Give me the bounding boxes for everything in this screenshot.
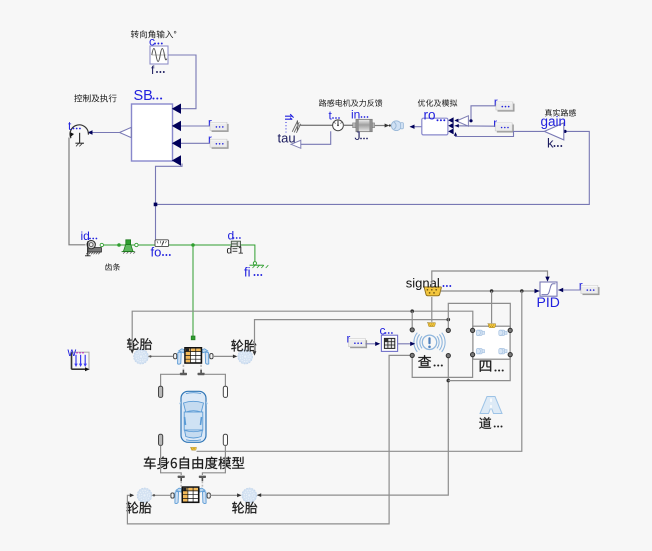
label roadfeel-motor-force-feedback	[319, 99, 382, 106]
SB input triangle 3	[172, 138, 181, 148]
torque source tau (fixed mount)	[285, 114, 301, 133]
front axle lower frame stubs (dashed)	[182, 365, 184, 370]
label tire RR	[232, 502, 257, 514]
wire ro to motor	[411, 126, 422, 128]
label dao name	[479, 417, 491, 429]
front axle T connector left	[180, 370, 187, 375]
block rack mass (sliding mass)	[122, 240, 136, 254]
wire cha TR to si RT (over the top)	[448, 303, 510, 328]
r parameter block r1	[208, 117, 229, 132]
wire cha TL stub	[411, 311, 413, 327]
connector TR	[446, 328, 450, 332]
SB input triangle 2	[172, 121, 181, 131]
wire car signal up (long)	[197, 291, 522, 451]
junction node green 2	[191, 243, 195, 247]
label control-and-actuation	[74, 94, 116, 102]
connector green circle before fo	[135, 243, 138, 246]
block SB (controller)	[132, 104, 173, 161]
small yellow connector on cha top	[427, 323, 435, 327]
torque source t1 (steering torque)	[70, 125, 88, 147]
si connector LB	[471, 353, 475, 357]
svg-text:c: c	[149, 35, 155, 49]
wire sine to SB input1	[168, 55, 196, 109]
block cha (brake lookup) connector TL	[410, 328, 414, 332]
block fo force sensor	[155, 240, 169, 247]
block id1 rack-pinion gear	[85, 240, 101, 255]
svg-text:signal: signal	[406, 276, 440, 291]
svg-text:PID: PID	[537, 294, 560, 310]
wire bracket rear-right pill to axle	[202, 446, 225, 475]
car bottom signal connector (yellow)	[190, 447, 196, 450]
road block icon (dao)	[480, 397, 502, 414]
junction node at gain input	[563, 130, 566, 133]
label rack	[105, 263, 120, 270]
wire front-left tire to axle	[148, 355, 173, 357]
r parameter block r4	[493, 118, 514, 133]
label steering-angle-input	[131, 30, 177, 38]
wire cha BR to rear-right tire	[258, 358, 449, 495]
label optimize-simulate	[418, 99, 458, 106]
front axle T connector right	[198, 370, 205, 375]
wire front-left tire brake line (A)	[132, 311, 473, 352]
wire bracket front-right to car pill	[204, 374, 225, 386]
wire grey torque source down to rack gear	[69, 138, 86, 245]
SB output triangle (left, hollow)	[120, 127, 132, 137]
signal d-sub connector	[423, 287, 441, 296]
block damper d=1	[231, 241, 240, 246]
label tire RL	[126, 502, 151, 514]
label true-roadfeel	[545, 109, 576, 116]
wire c table to brake icon	[398, 343, 414, 345]
si connector RT	[508, 328, 512, 332]
input connector tau (hollow triangle)	[291, 140, 301, 148]
block ro (optimizer)	[422, 118, 448, 135]
r parameter block r6	[347, 334, 368, 349]
svg-text:w: w	[67, 345, 77, 359]
wire green rack main line	[101, 244, 231, 246]
ro input triangle 3	[448, 128, 453, 134]
car frame pill rear-right	[223, 434, 227, 445]
car frame pill front-left	[159, 386, 163, 397]
svg-text:fo: fo	[151, 245, 162, 260]
svg-text:SB: SB	[134, 88, 153, 104]
gain g1 (small, hollow)	[456, 116, 468, 126]
car frame pill rear-left	[159, 434, 163, 445]
tire front-right	[238, 349, 253, 364]
wire rear-left tire to axle	[152, 494, 171, 496]
wire gain k1 output to ro input3	[456, 131, 545, 136]
rear axle upper frame stubs (dashed)	[180, 481, 182, 487]
rear axle assembly	[171, 487, 210, 503]
wire front axle to front-right tire	[213, 355, 236, 357]
wire r5 to PID right	[558, 289, 581, 291]
rear axle T connector right	[199, 476, 206, 481]
wire bracket rear-left pill to axle	[161, 446, 182, 475]
shaft wire tau-sensor	[298, 124, 333, 126]
block PID	[540, 282, 557, 296]
wire cha BL to rear-left tire (bottom loop)	[127, 355, 409, 524]
wire r4 to ro input2	[455, 125, 496, 127]
block c lookup table	[381, 335, 397, 351]
wire force feedback: fo sensor up to SB input4 and right to gain	[156, 164, 183, 240]
motor m1 (light blue)	[391, 121, 403, 131]
rear axle T connector left	[178, 476, 185, 481]
junction node green 1	[117, 243, 121, 247]
world frame w1	[72, 352, 90, 371]
wire green damper to fixed	[241, 245, 255, 262]
wire r3 to gain g1	[471, 106, 496, 121]
SB input triangle 1	[172, 104, 181, 114]
green connector square on front axle	[191, 336, 195, 340]
label car-6dof-model	[144, 457, 245, 470]
wire r2 to SB input3	[181, 142, 210, 144]
wire r6 to c table	[366, 343, 380, 345]
svg-text:in: in	[351, 108, 360, 122]
ro input triangle 1	[448, 117, 453, 123]
svg-text:ro: ro	[424, 108, 436, 123]
wire green down to front axle	[192, 245, 194, 336]
inertia J1 (cylinder)	[353, 119, 375, 131]
wire rear axle to rear-right tire	[210, 494, 240, 496]
wire down to si yellow connector	[491, 291, 493, 323]
tire rear-right	[242, 488, 257, 503]
block si (four wheel brakes)	[473, 326, 510, 359]
svg-text:c: c	[380, 324, 386, 338]
ro input triangle 2	[448, 123, 453, 129]
wire signal top loop to PID top	[432, 271, 548, 287]
r parameter block r3	[494, 97, 515, 112]
fixed fi1 (green ground)	[250, 262, 269, 268]
car body 6dof (top view)	[179, 391, 208, 442]
wire sensor output to tau input	[301, 131, 331, 144]
junction node to car signal	[520, 289, 524, 293]
connector BL	[410, 353, 414, 357]
si top yellow connector	[488, 324, 496, 328]
gain k1 (roadfeel gain)	[544, 123, 564, 140]
junction node to si top	[490, 289, 494, 293]
tire rear-left	[137, 488, 152, 503]
wire signal right to PID left	[441, 290, 540, 292]
label tire FL	[127, 338, 152, 350]
svg-text:id: id	[81, 229, 90, 243]
SB input triangle 4 (bottom corner)	[172, 155, 181, 165]
junction node line B / cha TR vertical	[447, 318, 451, 322]
svg-text:d: d	[228, 229, 235, 243]
wire inertia to motor	[375, 125, 388, 127]
svg-text:fi: fi	[244, 265, 251, 280]
sine source block c1	[150, 46, 168, 64]
wire r1 to SB input2	[181, 125, 210, 127]
label si name	[480, 361, 492, 372]
wire cha BR junction to si RB	[448, 357, 510, 381]
svg-text:J: J	[355, 129, 361, 143]
car frame pill front-right	[223, 386, 227, 397]
junction node fo-feedback	[154, 203, 158, 207]
wire front-right tire brake line (B)	[255, 320, 449, 355]
brake warning icon (cha)	[414, 333, 445, 352]
si connector LT	[471, 328, 475, 332]
svg-text:k: k	[547, 136, 554, 151]
front axle assembly	[174, 348, 213, 364]
wire SB output to torque source	[88, 132, 120, 134]
junction node cha BR / si RB	[447, 379, 451, 383]
label tire FR	[231, 340, 256, 352]
r parameter block r5	[579, 281, 600, 296]
r parameter block r2	[208, 134, 229, 149]
tire front-left	[134, 349, 149, 364]
svg-text:d=1: d=1	[227, 246, 244, 257]
label cha name	[418, 355, 431, 368]
shaft wire sensor-inertia	[343, 124, 356, 126]
junction node line A / cha TL	[410, 309, 414, 313]
connector BR	[446, 354, 450, 358]
wire cha BL down to si BL	[412, 357, 472, 377]
junction node g1 input	[469, 119, 472, 122]
torque sensor t2	[333, 120, 344, 131]
wire signal bottom to cha top connector	[431, 297, 433, 322]
wire bracket front-left to car pill	[161, 374, 181, 386]
svg-text:gain: gain	[541, 114, 567, 129]
si connector RB	[508, 353, 512, 357]
